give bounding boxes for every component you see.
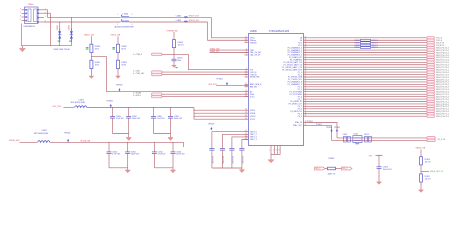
svg-text:VDDA: VDDA (250, 112, 256, 115)
wire P1_3/SCB1_UART_RTS row (304, 69, 427, 71)
svg-text:MPZ 600R@1GHZ: MPZ 600R@1GHZ (34, 133, 48, 135)
diode D1800 (TVS) (58, 29, 61, 43)
wire CAPT_1 elbow (222, 134, 248, 148)
port MCU_P2.4 row20 (427, 86, 435, 89)
svg-text:57: 57 (305, 66, 307, 68)
svg-text:100nF 16V: 100nF 16V (131, 154, 140, 156)
wire crystal lower (332, 139, 427, 141)
port MCU_P2.3 row19 (427, 83, 435, 86)
node rail cap C1806 (112, 107, 113, 108)
wire P1_6/SCB1_SDA row (304, 76, 427, 78)
pin 15 BAT5_NPE_N of U1800 (245, 83, 249, 85)
wire C1810 down (108, 154, 110, 168)
svg-text:L1800: L1800 (123, 14, 129, 16)
diode D1801 (TVS) (70, 29, 73, 43)
wire P0.2 row (304, 42, 427, 44)
svg-text:24: 24 (305, 90, 307, 92)
wire XTAL_IN elbow (304, 123, 338, 138)
wire join C1808/C1809 (154, 133, 171, 135)
svg-text:VDDIO: VDDIO (250, 116, 256, 118)
wire C1811 down (127, 154, 129, 168)
port MCU_P3.0 row24 (427, 95, 435, 98)
wire rail2 (50, 141, 183, 143)
capacitor C1810 (107, 152, 112, 154)
power flag VIO (376, 154, 383, 156)
resistor R1817 (369, 136, 372, 142)
inductor L1801 (75, 106, 87, 108)
svg-text:3: 3 (246, 49, 247, 51)
svg-text:CAL_CH_0P: CAL_CH_0P (250, 54, 261, 57)
wire P3_5 row (304, 113, 427, 115)
svg-text:GD5_2: GD5_2 (342, 168, 347, 170)
wire SDA0 to U1800 (162, 93, 249, 95)
svg-text:22R 1%: 22R 1% (372, 47, 379, 49)
wire shield pin down to ground bus (50, 13, 52, 46)
wire C1822 down (231, 150, 233, 168)
ground below C1814 (170, 168, 175, 173)
svg-text:X2_1 2.4: X2_1 2.4 (438, 139, 446, 141)
svg-text:60: 60 (305, 73, 307, 75)
svg-text:100nF 16V: 100nF 16V (174, 118, 183, 120)
port TB row0 (427, 37, 435, 40)
svg-text:VBUSIO: VBUSIO (250, 42, 257, 44)
svg-text:2 x TGB_GB: 2 x TGB_GB (133, 73, 144, 75)
ground below R1811 (419, 189, 424, 193)
svg-text:2: 2 (117, 24, 118, 26)
svg-text:100nF 16V: 100nF 16V (176, 154, 185, 156)
node TGB_5 R1805 junction (174, 54, 175, 55)
ground below C1807 (126, 134, 131, 141)
svg-text:USB MINI B: USB MINI B (24, 26, 36, 28)
pin 41 CAPT_0 of U1800 (245, 131, 249, 133)
svg-text:53: 53 (305, 56, 307, 58)
wire rail2 left (20, 141, 37, 143)
svg-text:VBUS_GB: VBUS_GB (84, 34, 94, 36)
port MCU_P1.5 row13 (427, 68, 435, 71)
svg-text:2 x SCL0: 2 x SCL0 (133, 95, 141, 97)
svg-text:68.7k: 68.7k (95, 48, 99, 50)
pin 42 CAPT_1 of U1800 (245, 133, 249, 135)
resistor R1803 (117, 60, 120, 68)
capacitor C1809 (168, 117, 173, 119)
connector J1800 left pin 4 (22, 20, 27, 22)
wire HSDP from choke (129, 17, 212, 19)
svg-text:D1801: D1801 (69, 25, 71, 30)
wire CB5 to U1800 (162, 71, 249, 73)
svg-text:C1816: C1816 (343, 134, 348, 136)
svg-text:33: 33 (305, 112, 307, 114)
svg-text:10: 10 (245, 71, 247, 73)
svg-text:TP1807: TP1807 (208, 123, 215, 125)
resistor R1812 in series (361, 39, 371, 41)
svg-text:9: 9 (278, 150, 279, 152)
wire R1802 to R1803 (117, 53, 119, 61)
wire P2_6 row (304, 96, 427, 98)
wire USB0_DP (210, 52, 249, 54)
port MCU_P3.7 row31 (427, 113, 435, 116)
svg-text:VIO_3V3: VIO_3V3 (53, 106, 62, 108)
port MCU_P2.0 row16 (427, 76, 435, 79)
svg-text:64: 64 (305, 83, 307, 85)
svg-text:HSDM_RD/: HSDM_RD/ (189, 20, 200, 22)
svg-text:3: 3 (132, 24, 133, 26)
svg-text:49.9k: 49.9k (95, 64, 99, 66)
svg-text:18: 18 (245, 90, 247, 92)
svg-text:7: 7 (273, 150, 274, 152)
wire SCL0 to U1800 (162, 96, 249, 98)
wire connector shell to ground bus (20, 24, 22, 46)
pin 9 POL of U1800 (245, 69, 249, 71)
port TGB_GB (152, 73, 163, 75)
pin 29 VDDA of U1800 (245, 112, 249, 114)
svg-text:34: 34 (305, 115, 307, 117)
wire ground bus (21, 45, 71, 47)
resistor R1805 (173, 40, 176, 48)
svg-text:19: 19 (245, 93, 247, 95)
wire C1806 down (112, 118, 114, 133)
wire rail to C1806 (112, 108, 114, 117)
svg-text:1: 1 (117, 14, 118, 16)
wire C1808 down (153, 118, 155, 133)
svg-text:XTAL_OUT: XTAL_OUT (293, 124, 303, 127)
capacitor C1821 (220, 149, 225, 151)
wire P1_2/SCB1_UART_CTS row (304, 66, 427, 68)
svg-text:VDD5_GB: VDD5_GB (111, 34, 121, 36)
svg-text:36: 36 (245, 39, 247, 41)
wire P2_1/SARMUX_9 row (304, 83, 427, 85)
wire C1807 down (128, 118, 130, 133)
svg-text:46: 46 (305, 39, 307, 41)
capacitor C1812 (152, 152, 157, 154)
wire HSDM from choke (129, 21, 208, 23)
wire P1_4 row (304, 71, 427, 73)
svg-text:52: 52 (305, 54, 307, 56)
marker green R1800 (86, 46, 89, 49)
wire VCCD to U1800 (194, 118, 249, 120)
wire join C1810/C1811 (109, 167, 128, 169)
svg-text:30: 30 (245, 115, 247, 117)
wire D+ to TVS D1801 (70, 18, 72, 46)
wire R1800 to R1801 (90, 53, 92, 61)
wire R1811 to ground (420, 182, 422, 188)
testpoint TP1802 arrow (336, 129, 338, 132)
wire P3_4/EXTCLK row (304, 110, 427, 112)
pin VSS0 of U1800 bottom (270, 146, 272, 155)
wire C1821 down (221, 150, 223, 168)
ground GND1 below connector (19, 46, 25, 52)
pin 3 CMP of U1800 (245, 49, 249, 51)
node D- junction (59, 22, 60, 23)
svg-text:22: 22 (305, 85, 307, 87)
port MCU_P3.6 row30 (427, 110, 435, 113)
svg-text:28: 28 (305, 100, 307, 102)
wire R1805 to C1805 (173, 48, 175, 60)
wire P0_2/SARMUX_2 row (304, 52, 427, 54)
resistor R1810 (420, 157, 423, 165)
node rail cap C1808 (153, 107, 154, 108)
svg-text:4: 4 (132, 14, 133, 16)
connector J1800 left pin 2 (22, 12, 27, 14)
wire P0_3/SARMUX_3 row (304, 54, 427, 56)
wire P3_3 row (304, 108, 427, 110)
svg-text:32: 32 (305, 110, 307, 112)
wire VTERM to R1805 (173, 32, 175, 40)
svg-text:5: 5 (246, 53, 247, 55)
wire P0_7/SARSEQ row (304, 59, 427, 61)
port MCU_P2.2 row18 (427, 81, 435, 84)
pin 11 TGB_IN of U1800 (245, 74, 249, 76)
wire rail1 (87, 107, 194, 109)
wire rail to C1812 (153, 142, 155, 152)
crystal Y1800 (353, 136, 362, 143)
svg-text:VDDD: VDDD (250, 110, 256, 112)
svg-text:10k 1%: 10k 1% (425, 161, 431, 163)
marker green C1805 (175, 66, 177, 69)
svg-text:4.7uF 16V: 4.7uF 16V (157, 118, 166, 120)
wire BUTTON to U1800 (216, 85, 248, 87)
wire P3_1/SWD_CLK row (304, 103, 427, 105)
resistor R1811 (420, 174, 423, 182)
port MCU_P3.3 row27 (427, 103, 435, 106)
wire 1A row (304, 37, 427, 39)
svg-text:27: 27 (305, 98, 307, 100)
svg-text:L1801: L1801 (79, 99, 84, 101)
resistor R1802 (117, 44, 120, 52)
connector J1800 body (25, 7, 39, 24)
port TB_N row3 (427, 44, 435, 47)
svg-text:100R 1%: 100R 1% (328, 174, 336, 176)
svg-text:VTERM_RD: VTERM_RD (167, 30, 179, 32)
svg-text:54: 54 (305, 58, 307, 60)
wire C1820 down (211, 150, 213, 168)
pin 4 CAL_CH_0M of U1800 (245, 52, 249, 54)
svg-text:10k 1%: 10k 1% (425, 179, 431, 181)
svg-text:8: 8 (20, 16, 21, 18)
svg-text:VCCD: VCCD (250, 119, 256, 121)
node fan joints (194, 110, 195, 111)
testpoint TP1803 arrow (330, 129, 332, 132)
resistor R1800 (90, 44, 93, 52)
port MCU_P4.0 row32 (427, 115, 435, 118)
ground below C1805 (172, 64, 176, 67)
svg-text:MPZ 600R@1GHZ: MPZ 600R@1GHZ (71, 102, 85, 104)
svg-text:61: 61 (305, 76, 307, 78)
port MCU_P1.0 row8 (427, 56, 435, 59)
svg-text:VDDA_GB: VDDA_GB (80, 140, 91, 143)
svg-text:2 x TGB_5: 2 x TGB_5 (133, 54, 142, 56)
marker green R1802 (112, 46, 115, 49)
svg-text:BAT_EN: BAT_EN (250, 86, 258, 89)
port XTAL upper (427, 137, 436, 140)
svg-text:R1809: R1809 (329, 158, 335, 160)
ic U1800 body (249, 34, 304, 146)
svg-text:ACM2012 EMI-FILTER: ACM2012 EMI-FILTER (115, 26, 135, 29)
wire rail to C1810 (108, 142, 110, 152)
svg-text:68.7k: 68.7k (121, 48, 125, 50)
wire rail to C1811 (127, 142, 129, 152)
capacitor C1811 (125, 152, 130, 154)
wire XTAL_OUT elbow (304, 125, 332, 140)
resistor R1813 in series (361, 42, 371, 44)
svg-text:58: 58 (305, 68, 307, 70)
testpoint TP1805 (118, 88, 120, 91)
wire C1809 down (170, 118, 172, 133)
svg-text:Y1800: Y1800 (354, 134, 359, 136)
connector J1800 left pin 3 (22, 16, 27, 18)
wire VDDA to U1800 (194, 112, 249, 114)
port MCU_P0.7 row7 (427, 54, 435, 57)
port MCU_P1.2 row10 (427, 61, 435, 64)
wire P0_6/SAR_EXT row (304, 56, 427, 58)
port MCU_P2.6 row22 (427, 90, 435, 93)
svg-text:1: 1 (269, 150, 270, 152)
node divider tap col1 (91, 56, 92, 57)
ground below C1813 (377, 181, 382, 185)
svg-text:P4_0: P4_0 (298, 116, 302, 118)
wire P2_0/SARMUX_8 row (304, 81, 427, 83)
svg-text:16: 16 (245, 85, 247, 87)
capacitor C1822 (229, 149, 234, 151)
wire VBUS to R1810 (420, 150, 422, 157)
port MCU_P1.6 row14 (427, 71, 435, 74)
svg-text:12: 12 (245, 76, 247, 78)
port MCU_P1.1 row9 (427, 59, 435, 62)
wire VDDIO to U1800 (194, 115, 249, 117)
svg-text:4.7uF 16V: 4.7uF 16V (116, 118, 125, 120)
svg-text:5: 5 (276, 150, 277, 152)
wire USB D+ upper (48, 17, 121, 19)
pin VSS3 of U1800 bottom (279, 146, 281, 155)
svg-text:59: 59 (305, 71, 307, 73)
svg-text:TP1804: TP1804 (216, 79, 222, 81)
svg-text:11: 11 (245, 73, 247, 75)
svg-text:25: 25 (305, 93, 307, 95)
wire VDD5_GB to R1802 (117, 36, 119, 44)
wire VDDD to U1800 (194, 109, 249, 111)
svg-text:6: 6 (20, 8, 21, 10)
ground below C1809 (168, 134, 173, 141)
svg-text:15: 15 (245, 83, 247, 85)
pin 20 SCL0 of U1800 (245, 96, 249, 98)
svg-text:9: 9 (20, 19, 21, 21)
node rail cap C1812 (154, 142, 155, 143)
svg-text:PESD USB TVS NL: PESD USB TVS NL (54, 49, 71, 51)
port MCU_P1.4 row12 (427, 66, 435, 69)
svg-text:TP1801: TP1801 (64, 132, 71, 134)
port GD5_2 left (315, 167, 326, 170)
wire P3_2 row (304, 105, 427, 107)
port MCU_P3.5 row29 (427, 108, 435, 111)
svg-text:50: 50 (305, 49, 307, 51)
wire join C1812/C1814 (154, 167, 173, 169)
svg-text:100nF 16V: 100nF 16V (243, 156, 245, 163)
testpoint TP1804 (226, 82, 228, 85)
svg-text:SCL0: SCL0 (250, 96, 255, 98)
svg-text:4: 4 (246, 51, 247, 53)
svg-text:28: 28 (245, 109, 247, 111)
connector J1800 right pin 2 (38, 12, 44, 14)
pin 37 DPlus of U1800 (245, 37, 249, 39)
ground below U1800 (268, 159, 274, 163)
port MCU_P2.7 row23 (427, 93, 435, 96)
svg-text:35: 35 (245, 41, 247, 43)
ferrite bead L1805 (184, 17, 187, 18)
wire P0_0/SARMUX_0 row (304, 47, 427, 49)
wire C1813 to ground (378, 168, 380, 180)
ground below C1811 (125, 168, 130, 173)
testpoint TP1807 arrow (210, 127, 212, 130)
wire USB0_DM (210, 49, 249, 51)
wire C1812 down (153, 154, 155, 168)
choke L1800 (common-mode filter) (121, 15, 129, 22)
capacitor C1816 load (344, 136, 347, 142)
wire R1803 to ground (117, 69, 119, 75)
capacitor C1805 (172, 59, 177, 61)
wire divider tap col1 (91, 57, 248, 92)
node rail2 TP junction (68, 142, 69, 143)
wire P4_0 row (304, 115, 427, 117)
node rail cap C1810 (109, 142, 110, 143)
svg-text:100nF 16V: 100nF 16V (223, 156, 225, 163)
svg-text:63: 63 (305, 81, 307, 83)
marker green Y1800 (355, 142, 359, 145)
wire P1_7/SCB1_SCL row (304, 78, 427, 80)
port MCU_P1.7 row15 (427, 73, 435, 76)
svg-text:R1816: R1816 (364, 134, 369, 136)
wire GD5 left (325, 168, 328, 170)
svg-text:51: 51 (305, 51, 307, 53)
ground below R1803 (116, 75, 121, 79)
svg-text:45: 45 (305, 36, 307, 38)
svg-text:47: 47 (305, 41, 307, 43)
svg-text:23: 23 (305, 88, 307, 90)
port GD5_2 right (342, 167, 353, 170)
inductor L1802 (38, 141, 50, 143)
port CB5 (152, 71, 163, 73)
wire P0.3 row (304, 44, 427, 46)
svg-text:VBUS_GB: VBUS_GB (416, 148, 426, 150)
svg-text:MCU_P4.0 2.4: MCU_P4.0 2.4 (436, 116, 448, 118)
wire P2_4/TCPWM0 row (304, 91, 427, 93)
wire VSS join (271, 154, 280, 156)
wire P1_0/SCB1_UART_RX row (304, 61, 427, 63)
port MCU_P0.5 row5 (427, 49, 435, 52)
wire P2_7 row (304, 98, 427, 100)
marker green D1800 (58, 41, 61, 42)
wire VIO to C1813 (378, 155, 380, 167)
port TB_P row2 (427, 41, 435, 44)
svg-text:100n: 100n (177, 60, 181, 62)
resistor R1815 in series (361, 47, 371, 49)
svg-text:L1806: L1806 (176, 20, 181, 22)
svg-text:MODE_SEL: MODE_SEL (250, 77, 260, 79)
svg-text:20: 20 (245, 95, 247, 97)
port XTAL lower (427, 139, 436, 142)
pin VSS2 of U1800 bottom (276, 146, 278, 155)
port MCU_P2.1 row17 (427, 78, 435, 81)
port TGB_5 (152, 53, 163, 55)
port MCU_P2.5 row21 (427, 88, 435, 91)
svg-text:49: 49 (305, 46, 307, 48)
svg-text:3: 3 (45, 16, 46, 18)
wire rail to C1808 (153, 108, 155, 117)
wire P0_1/SARMUX_1 row (304, 49, 427, 51)
svg-text:26: 26 (305, 95, 307, 97)
pin VSS1 of U1800 bottom (273, 146, 275, 155)
resistor R1814 in series (361, 44, 371, 46)
svg-text:9: 9 (246, 68, 247, 70)
pin 18 A5 of U1800 (245, 91, 249, 93)
